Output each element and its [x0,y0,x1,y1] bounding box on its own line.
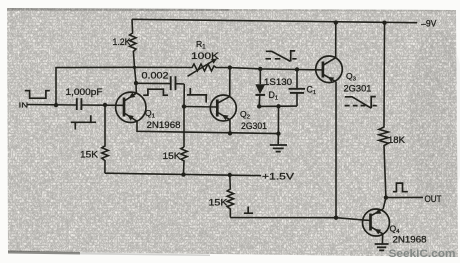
label 2N1968 (Q1) [147,120,181,130]
node Q3 collector at bus [334,20,338,24]
node bottom-wire/ground-drop junction [276,104,280,108]
svg-text:–9V: –9V [421,18,437,28]
svg-text:15K: 15K [80,150,99,160]
waveform Q2 base sawtooth step [187,88,207,103]
label 1,000pF value [66,87,103,97]
transistor Q4 [363,209,390,236]
label Q4 [390,224,401,236]
wire Q4 base [230,218,370,221]
node OUT junction [384,195,388,199]
svg-text:0.002: 0.002 [142,71,169,81]
waveform Q3 emitter sawtooth [345,97,377,109]
svg-text:15K: 15K [163,151,182,161]
node D1 top [258,67,262,71]
potentiometer R1 100K [135,64,230,71]
diode D1 1S130 [259,69,261,84]
svg-text:SeekIC.com: SeekIC.com [389,248,456,260]
wire Q2 emitter drop [229,120,231,134]
node 18K at bus [382,21,386,25]
node D1 bottom [257,104,261,108]
wire Q4 collector riser [383,198,386,209]
label D1 [269,90,279,102]
resistor 1.2K [130,19,137,67]
node collector/feedback junction [133,66,136,69]
svg-text:+1.5V: +1.5V [262,171,294,181]
wire top -9V supply bus [132,19,417,22]
node Q2 emitter to rail [228,131,232,135]
node Q2 collector to R1 wire [228,65,232,69]
svg-text:15K: 15K [209,197,229,207]
transistor Q2 [210,95,236,121]
node rail/ground junction [276,131,280,135]
wire Q1 collector riser [135,67,137,93]
svg-text:OUT: OUT [425,194,442,204]
label 0.002 value [142,71,169,81]
wire +1.5V bottom bus [105,173,261,175]
label Q3 [346,71,356,83]
transistor Q1 [116,92,146,122]
label 18K [388,135,406,145]
node Q1 base bias junction [103,103,107,107]
svg-text:2N1968: 2N1968 [147,120,181,130]
wire D1/C1 bottom [259,105,297,107]
node bottom 15K at bus [228,173,232,177]
label OUT [425,194,442,204]
label 2N1968 (Q4) [393,235,427,245]
node 15K mid to bus [181,172,185,176]
wire feedback from collector node to input node [56,67,135,105]
label Q1 [145,108,155,120]
svg-text:2G301: 2G301 [344,83,372,93]
waveform Q1 collector pulse [143,89,168,95]
node C1 top [295,67,299,71]
label 1.2K value [113,37,132,47]
label -9V [421,18,437,28]
svg-text:1,000pF: 1,000pF [66,87,103,97]
wire Q2 base [184,106,217,109]
svg-text:IN: IN [19,101,29,110]
svg-text:1S130: 1S130 [264,77,292,87]
label 2G301 (Q2) [241,121,267,131]
wire IN line left of C [27,104,76,106]
node 0.002 tap junction [134,81,138,85]
wire Q4 emitter drop [381,234,383,244]
wire R1 node to Q3 base [230,68,323,70]
waveform output pulse [393,183,408,192]
ground symbol (Q4 emitter) [375,244,389,250]
ground symbol (D1/C1 rail) [270,145,287,152]
resistor 15K (bottom, Q4 base) [227,175,233,218]
label IN terminal [19,101,29,110]
waveform DC level [244,207,253,214]
waveform differentiated spikes [71,115,96,129]
wire OUT [386,196,423,198]
label 100K value [191,50,220,61]
svg-text:1.2K: 1.2K [113,37,132,47]
wire common emitter rail [137,121,279,133]
watermark SeekIC.com [389,248,456,260]
wire Q3 collector riser [335,23,337,58]
resistor 15K (left, Q1 base) [102,105,108,173]
node Q3 emitter to Q4 base [334,216,338,220]
capacitor C1 [296,70,298,89]
node input junction [54,103,58,107]
label 1S130 [264,77,292,87]
label 15K bottom [209,197,229,207]
label 2G301 (Q3) [344,83,372,93]
capacitor 0.002 coupling [136,82,170,84]
wire Q3 emitter long drop [335,82,337,218]
node Q2 base junction [182,104,186,108]
svg-text:2N1968: 2N1968 [393,235,427,245]
svg-text:18K: 18K [388,135,406,145]
label Q2 [240,109,250,121]
label R1 [196,39,206,51]
label 15K left [80,150,99,160]
transistor Q3 [316,56,343,83]
resistor 18K [379,23,389,198]
resistor 15K (middle) [181,147,187,175]
svg-text:2G301: 2G301 [241,121,267,131]
label +1.5V supply [262,171,294,181]
wire ground drop from bottom wire through rail [277,106,279,144]
label 15K middle [163,151,182,161]
capacitor 1,000pF [76,98,78,110]
wire Q2 base riser / 15K mid branch [183,84,185,147]
svg-text:100K: 100K [191,50,220,61]
waveform input negative pulse [25,91,50,99]
wire IN line right of C to Q1 base [81,104,124,106]
label C1 [307,85,317,97]
wire Q2 collector riser [229,68,231,97]
waveform sawtooth at Q3 base [266,51,297,62]
